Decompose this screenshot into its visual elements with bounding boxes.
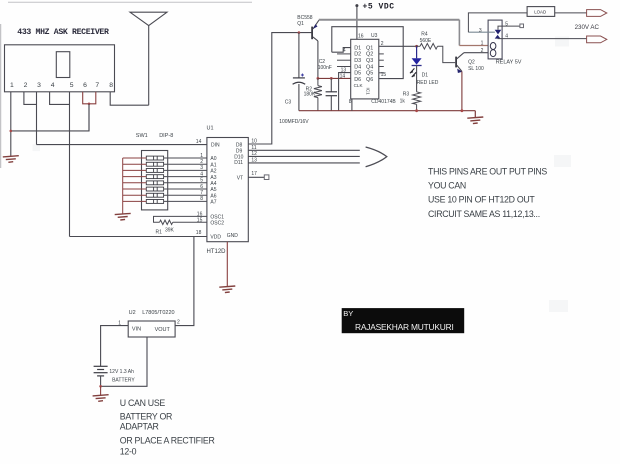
svg-text:BATTERY OR: BATTERY OR xyxy=(120,411,172,421)
svg-text:D11: D11 xyxy=(234,160,243,166)
wire U3 Q1 output pin2 xyxy=(379,45,417,47)
svg-text:1: 1 xyxy=(200,153,203,159)
ground rail bottom maroon xyxy=(299,110,475,112)
switch SW1 DIP-8 body xyxy=(142,151,168,210)
svg-text:16: 16 xyxy=(358,33,364,39)
wire LOAD to AC terminal xyxy=(555,12,587,14)
wire Q2 emitter to rail xyxy=(461,71,463,110)
svg-text:14: 14 xyxy=(340,74,346,80)
wire rail down to relay coil pin1 xyxy=(458,20,460,46)
ground (main rail) xyxy=(467,117,483,124)
svg-text:DIN: DIN xyxy=(211,142,220,148)
node junction C2 tap xyxy=(330,77,333,80)
svg-text:15: 15 xyxy=(381,72,387,78)
svg-text:VOUT: VOUT xyxy=(155,327,171,333)
svg-text:180K: 180K xyxy=(304,92,316,98)
wire receiver pin1 down to ground xyxy=(10,92,12,157)
node junction Q2 emitter / rail xyxy=(461,109,464,112)
svg-text:2: 2 xyxy=(177,320,180,326)
capacitor C3 electrolytic xyxy=(293,33,306,111)
svg-text:1: 1 xyxy=(481,41,484,47)
battery BT1 12V xyxy=(94,366,108,376)
annotation author box xyxy=(342,308,465,333)
svg-text:RELAY 5V: RELAY 5V xyxy=(496,60,522,66)
svg-text:USE 10 PIN OF HT12D OUT: USE 10 PIN OF HT12D OUT xyxy=(428,195,535,205)
faint scan artifacts xyxy=(33,37,572,313)
ground (U1 GND) xyxy=(219,286,235,293)
wire U1 pin10 D8 up to Q1 base xyxy=(248,33,311,144)
wire U1 pin13 D11 output xyxy=(248,162,359,164)
svg-text:2: 2 xyxy=(200,159,203,165)
svg-text:3: 3 xyxy=(200,165,203,171)
IC U3 CD40174 body xyxy=(351,39,379,99)
svg-text:100nF: 100nF xyxy=(318,65,332,71)
svg-text:D6: D6 xyxy=(354,77,361,83)
svg-text:A2: A2 xyxy=(210,169,216,175)
svg-text:Q1: Q1 xyxy=(297,21,304,27)
wire receiver pins2-3 strap xyxy=(24,92,37,105)
svg-text:A0: A0 xyxy=(210,156,216,162)
svg-text:BATTERY: BATTERY xyxy=(112,378,135,384)
wire receiver pin3 down to DIN line xyxy=(36,92,38,145)
wire relay pin4 to 230V xyxy=(498,38,587,40)
svg-text:VIN: VIN xyxy=(132,327,141,333)
svg-text:560E: 560E xyxy=(420,38,432,44)
transistor Q2 SL100 xyxy=(455,53,464,73)
wire U1 pin12 D10 output xyxy=(248,155,359,157)
svg-text:4: 4 xyxy=(200,171,203,177)
wire U1 GND to ground xyxy=(226,242,228,287)
svg-text:Q2: Q2 xyxy=(468,59,475,65)
svg-text:1k: 1k xyxy=(400,99,406,105)
relay K1 contact arrows xyxy=(495,30,502,35)
IC U1 pin numbers xyxy=(196,139,257,237)
wire D1 entry jog pin4 xyxy=(332,48,351,53)
annotation THIS PINS text xyxy=(428,167,547,219)
svg-text:Q1: Q1 xyxy=(366,45,373,51)
wire U1 pin11 D9 output xyxy=(248,149,359,151)
svg-text:5: 5 xyxy=(70,82,74,89)
svg-text:YOU CAN: YOU CAN xyxy=(428,181,466,191)
wire battery negative return xyxy=(101,337,147,386)
svg-text:A5: A5 xyxy=(210,187,216,193)
svg-text:SL 100: SL 100 xyxy=(468,66,484,72)
IC U1 HT12D body xyxy=(207,138,248,242)
wire receiver pins4-5 strap xyxy=(50,92,70,105)
svg-text:13: 13 xyxy=(341,67,347,73)
svg-text:A3: A3 xyxy=(210,175,216,181)
svg-text:17: 17 xyxy=(251,171,257,177)
ground (battery) xyxy=(93,395,109,402)
wire battery junction to ground xyxy=(100,386,102,395)
wire feedback bus Q6 to D1 xyxy=(332,27,403,79)
wire Q2 collector to relay coil pin2 xyxy=(464,52,488,54)
svg-text:+5 VDC: +5 VDC xyxy=(363,3,395,12)
svg-text:L7805/T0220: L7805/T0220 xyxy=(142,310,174,316)
node junction pins6-7 xyxy=(88,103,91,106)
wire VDD horizontal to U1 xyxy=(70,236,207,238)
svg-text:VT: VT xyxy=(237,176,243,182)
svg-text:C3: C3 xyxy=(285,99,292,105)
wire rail to ground symbol xyxy=(474,111,476,118)
svg-text:2: 2 xyxy=(381,41,384,47)
svg-text:A4: A4 xyxy=(210,181,216,187)
wire VIN to battery xyxy=(101,326,129,367)
svg-text:OR PLACE A RECTIFIER: OR PLACE A RECTIFIER xyxy=(120,435,215,445)
page border top xyxy=(8,1,252,3)
svg-text:12V 1.3 Ah: 12V 1.3 Ah xyxy=(109,369,134,375)
wire SW1 common bus left side xyxy=(123,158,147,214)
ground (receiver pin1) xyxy=(3,156,19,163)
connector AC terminal 2 xyxy=(587,36,607,43)
load block xyxy=(527,7,555,17)
wire ground link pin1 to pins6-7 xyxy=(11,104,89,131)
svg-text:VDD: VDD xyxy=(210,235,221,241)
svg-text:D1: D1 xyxy=(354,45,361,51)
svg-text:D1: D1 xyxy=(422,73,429,79)
wire Q1 collector down xyxy=(317,41,319,79)
svg-text:39K: 39K xyxy=(165,228,175,234)
svg-text:6: 6 xyxy=(200,184,203,190)
svg-text:A6: A6 xyxy=(210,193,216,199)
svg-text:4: 4 xyxy=(51,82,55,89)
svg-text:U3: U3 xyxy=(371,33,378,39)
svg-text:8: 8 xyxy=(200,196,203,202)
wire VOUT up to VDD net xyxy=(175,237,194,326)
resistor R4 560E xyxy=(417,44,456,63)
svg-text:2: 2 xyxy=(24,82,28,89)
svg-text:CD40174B: CD40174B xyxy=(371,99,396,105)
ground (SW1 common) xyxy=(115,213,131,220)
wire receiver pins6-7 strap (ground) xyxy=(83,92,96,104)
antenna AE1 xyxy=(130,12,167,105)
terminal square on VT stub xyxy=(264,175,269,180)
capacitor C2 100nF xyxy=(326,78,337,110)
resistor R3 xyxy=(413,92,421,111)
svg-text:230V AC: 230V AC xyxy=(575,24,600,31)
diode D1 RED LED xyxy=(410,46,422,92)
wire +5 rail from Q1 emitter xyxy=(319,19,460,21)
svg-text:CIRCUIT SAME AS 11,12,13...: CIRCUIT SAME AS 11,12,13... xyxy=(428,209,540,219)
IC U3 internal labels xyxy=(354,45,374,95)
node +5 VDC dot xyxy=(355,4,358,7)
svg-text:OSC2: OSC2 xyxy=(210,220,224,226)
svg-text:D4: D4 xyxy=(354,64,361,70)
node junction R3 to rail xyxy=(415,109,418,112)
svg-text:D3: D3 xyxy=(354,58,361,64)
resistor R1 39K with OSC loop xyxy=(154,216,207,222)
connector AC terminal 1 xyxy=(587,10,607,17)
svg-text:Q3: Q3 xyxy=(366,58,373,64)
wire LOAD feed xyxy=(468,13,527,32)
relay K1 coil xyxy=(490,43,496,57)
svg-text:U2: U2 xyxy=(129,310,136,316)
svg-text:D5: D5 xyxy=(354,71,361,77)
receiver module body xyxy=(5,45,115,92)
wire U3 pin8 to rail xyxy=(351,99,353,111)
regulator U2 L7805 body xyxy=(128,321,175,337)
svg-text:Q2: Q2 xyxy=(366,52,373,58)
wire receiver pin5 down (+5V feed) xyxy=(69,92,71,237)
svg-text:1: 1 xyxy=(10,82,14,89)
switch SW1 positions 1-8 xyxy=(146,156,163,203)
svg-text:7: 7 xyxy=(200,190,203,196)
svg-text:18: 18 xyxy=(196,230,202,236)
node junction Q1 base / C3 xyxy=(298,31,301,34)
wire U1 pin17 VT stub xyxy=(248,176,264,178)
node junction pin1/ground-link xyxy=(10,130,13,133)
svg-text:RED LED: RED LED xyxy=(417,80,439,86)
svg-text:ADAPTAR: ADAPTAR xyxy=(120,422,159,432)
svg-text:4: 4 xyxy=(505,33,508,39)
wire pins6-7 down to ground link xyxy=(88,104,90,131)
svg-text:8: 8 xyxy=(349,99,352,105)
svg-text:6: 6 xyxy=(83,82,87,89)
transistor Q1 BC558 xyxy=(311,20,319,41)
svg-text:A7: A7 xyxy=(210,200,216,206)
svg-text:IC1: IC1 xyxy=(366,88,371,96)
svg-text:THIS PINS ARE OUT PUT PINS: THIS PINS ARE OUT PUT PINS xyxy=(428,167,547,177)
wire receiver pin8 to antenna xyxy=(110,92,149,105)
svg-text:Q6: Q6 xyxy=(366,77,373,83)
svg-text:Q4: Q4 xyxy=(366,64,373,70)
svg-text:LOAD: LOAD xyxy=(534,9,546,14)
svg-text:R1: R1 xyxy=(156,230,163,236)
svg-text:HT12D: HT12D xyxy=(207,249,227,255)
svg-text:BY: BY xyxy=(343,309,353,318)
svg-text:CLK: CLK xyxy=(354,83,364,88)
svg-text:7: 7 xyxy=(95,82,99,89)
wire U3 D5 pin13 to ground rail xyxy=(339,73,351,111)
svg-text:5: 5 xyxy=(505,21,508,27)
IC U3 left stubs D2-D4 xyxy=(337,54,351,67)
receiver pin numbers 1-8 xyxy=(10,82,113,89)
svg-text:2: 2 xyxy=(481,48,484,54)
node junction R4/LED xyxy=(415,45,418,48)
connector output arrow chevron xyxy=(366,147,387,167)
terminal square pin5 xyxy=(520,24,524,28)
svg-text:5: 5 xyxy=(200,178,203,184)
svg-text:RAJASEKHAR MUTUKURI: RAJASEKHAR MUTUKURI xyxy=(355,322,454,332)
svg-text:R3: R3 xyxy=(403,92,410,98)
wire relay pin3 xyxy=(468,31,495,33)
wire +5 down to U3 pin16 xyxy=(356,6,358,40)
svg-text:U1: U1 xyxy=(207,126,214,132)
IC U1 internal pin names xyxy=(210,142,243,240)
svg-text:DIP-8: DIP-8 xyxy=(159,133,173,139)
svg-text:433 MHZ ASK RECEIVER: 433 MHZ ASK RECEIVER xyxy=(17,28,109,37)
wire DIN data line to U1 xyxy=(37,144,207,146)
svg-text:4: 4 xyxy=(343,47,346,53)
node junction battery/ground xyxy=(99,385,102,388)
annotation U CAN USE text xyxy=(120,398,215,456)
resistor R2 180K xyxy=(314,78,322,110)
IC U3 right stubs Q2-Q5 xyxy=(379,54,384,73)
svg-text:100MFD/16V: 100MFD/16V xyxy=(279,119,309,125)
svg-text:3: 3 xyxy=(479,28,482,34)
svg-text:8: 8 xyxy=(109,82,113,89)
svg-text:Q5: Q5 xyxy=(366,71,373,77)
svg-text:14: 14 xyxy=(196,139,202,145)
relay K1 body xyxy=(488,20,502,59)
wire to relay coil pin1 xyxy=(459,45,488,47)
node junction Q1 collector / R2 / C2 line xyxy=(317,77,320,80)
svg-text:SW1: SW1 xyxy=(136,133,148,139)
svg-text:12-0: 12-0 xyxy=(120,446,137,456)
svg-text:R4: R4 xyxy=(421,31,428,37)
page border left xyxy=(0,24,2,168)
svg-text:GND: GND xyxy=(227,233,239,239)
svg-text:3: 3 xyxy=(37,82,41,89)
wires SW1 to U1 address pins A0-A7 xyxy=(164,158,207,201)
svg-text:U CAN USE: U CAN USE xyxy=(120,398,166,408)
svg-text:A1: A1 xyxy=(210,162,216,168)
wire maroon node line to U3 D6 pin14 xyxy=(318,77,351,79)
svg-text:D2: D2 xyxy=(354,52,361,58)
wire relay pin5 with terminal xyxy=(498,26,520,30)
